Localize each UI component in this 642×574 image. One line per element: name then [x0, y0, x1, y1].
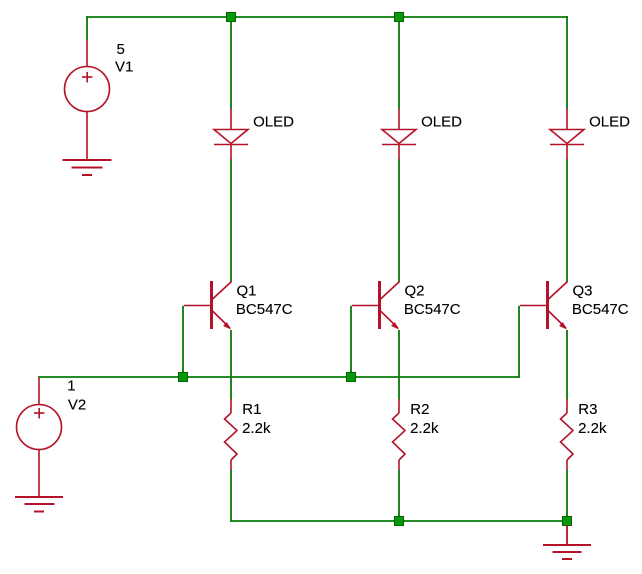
svg-text:R1: R1 — [242, 401, 261, 418]
svg-text:2.2k: 2.2k — [578, 420, 607, 437]
svg-text:V1: V1 — [115, 59, 133, 76]
value label 5 (V1) — [117, 41, 125, 58]
diode OLED2 — [382, 109, 416, 160]
wire Q1 base drop — [182, 306, 184, 377]
diode OLED3 — [550, 109, 584, 160]
diode OLED1 — [214, 109, 248, 160]
resistor R1 — [225, 399, 238, 470]
svg-text:1: 1 — [67, 378, 75, 395]
wire base rail (V2 to Q3 base riser) — [38, 376, 520, 378]
junction top rail column1 — [227, 13, 236, 22]
refdes label R1 — [242, 401, 261, 418]
junction base rail Q1 — [179, 373, 188, 382]
wire R3 bottom to bottom rail — [566, 470, 568, 522]
svg-text:BC547C: BC547C — [236, 301, 293, 318]
junction bottom rail column2 — [395, 517, 404, 526]
svg-text:OLED: OLED — [421, 114, 462, 131]
wire column2 mid (OLED2 cathode to Q2 collector) — [398, 159, 400, 282]
resistor R3 — [561, 399, 574, 470]
label OLED (column3) — [589, 114, 630, 131]
svg-text:V2: V2 — [68, 396, 86, 413]
transistor Q1 — [184, 281, 232, 330]
wire column1 mid (OLED1 cathode to Q1 collector) — [230, 159, 232, 282]
wire column3 top (rail to OLED3 anode) — [566, 16, 568, 109]
svg-text:R2: R2 — [410, 401, 429, 418]
label OLED (column2) — [421, 114, 462, 131]
type label BC547C (Q3) — [572, 301, 629, 318]
transistor Q2 — [352, 281, 400, 330]
svg-text:5: 5 — [117, 41, 125, 58]
wire column1 top (rail to OLED1 anode) — [230, 16, 232, 109]
value label 2.2k (R2) — [410, 420, 439, 437]
svg-text:OLED: OLED — [253, 114, 294, 131]
value label 1 (V2) — [67, 378, 75, 395]
wire bottom rail — [230, 520, 568, 522]
wire Q1 emitter to R1 — [230, 330, 232, 400]
refdes label Q1 — [237, 282, 257, 299]
junction bottom rail column3 — [563, 517, 572, 526]
type label BC547C (Q1) — [236, 301, 293, 318]
voltage source V2 — [17, 378, 62, 497]
refdes label Q2 — [405, 282, 425, 299]
wire Q2 base drop — [350, 306, 352, 377]
svg-text:2.2k: 2.2k — [242, 420, 271, 437]
voltage source V1 — [65, 40, 110, 160]
transistor Q3 — [520, 281, 568, 330]
svg-text:Q2: Q2 — [405, 282, 425, 299]
svg-text:R3: R3 — [578, 401, 597, 418]
wire R2 bottom to bottom rail — [398, 470, 400, 522]
type label BC547C (Q2) — [404, 301, 461, 318]
wire R1 bottom to bottom rail — [230, 470, 232, 522]
wire column2 top (rail to OLED2 anode) — [398, 16, 400, 109]
ground (bottom right) — [543, 525, 591, 559]
svg-text:BC547C: BC547C — [572, 301, 629, 318]
ground (below V2) — [15, 497, 63, 512]
junction base rail Q2 — [347, 373, 356, 382]
junction top rail column2 — [395, 13, 404, 22]
wire V1 drop from top rail — [86, 16, 88, 40]
wire top rail — [86, 16, 568, 18]
refdes label V2 — [68, 396, 86, 413]
ground (below V1) — [63, 160, 112, 175]
svg-text:BC547C: BC547C — [404, 301, 461, 318]
wire Q3 base riser — [518, 306, 520, 378]
value label 2.2k (R3) — [578, 420, 607, 437]
svg-text:Q3: Q3 — [573, 282, 593, 299]
wire Q2 emitter to R2 — [398, 330, 400, 400]
wire Q3 emitter to R3 — [566, 330, 568, 400]
refdes label V1 — [115, 59, 133, 76]
resistor R2 — [393, 399, 406, 470]
label OLED (column1) — [253, 114, 294, 131]
value label 2.2k (R1) — [242, 420, 271, 437]
svg-text:Q1: Q1 — [237, 282, 257, 299]
refdes label R3 — [578, 401, 597, 418]
refdes label Q3 — [573, 282, 593, 299]
svg-text:OLED: OLED — [589, 114, 630, 131]
refdes label R2 — [410, 401, 429, 418]
wire column3 mid (OLED3 cathode to Q3 collector) — [566, 159, 568, 282]
svg-text:2.2k: 2.2k — [410, 420, 439, 437]
